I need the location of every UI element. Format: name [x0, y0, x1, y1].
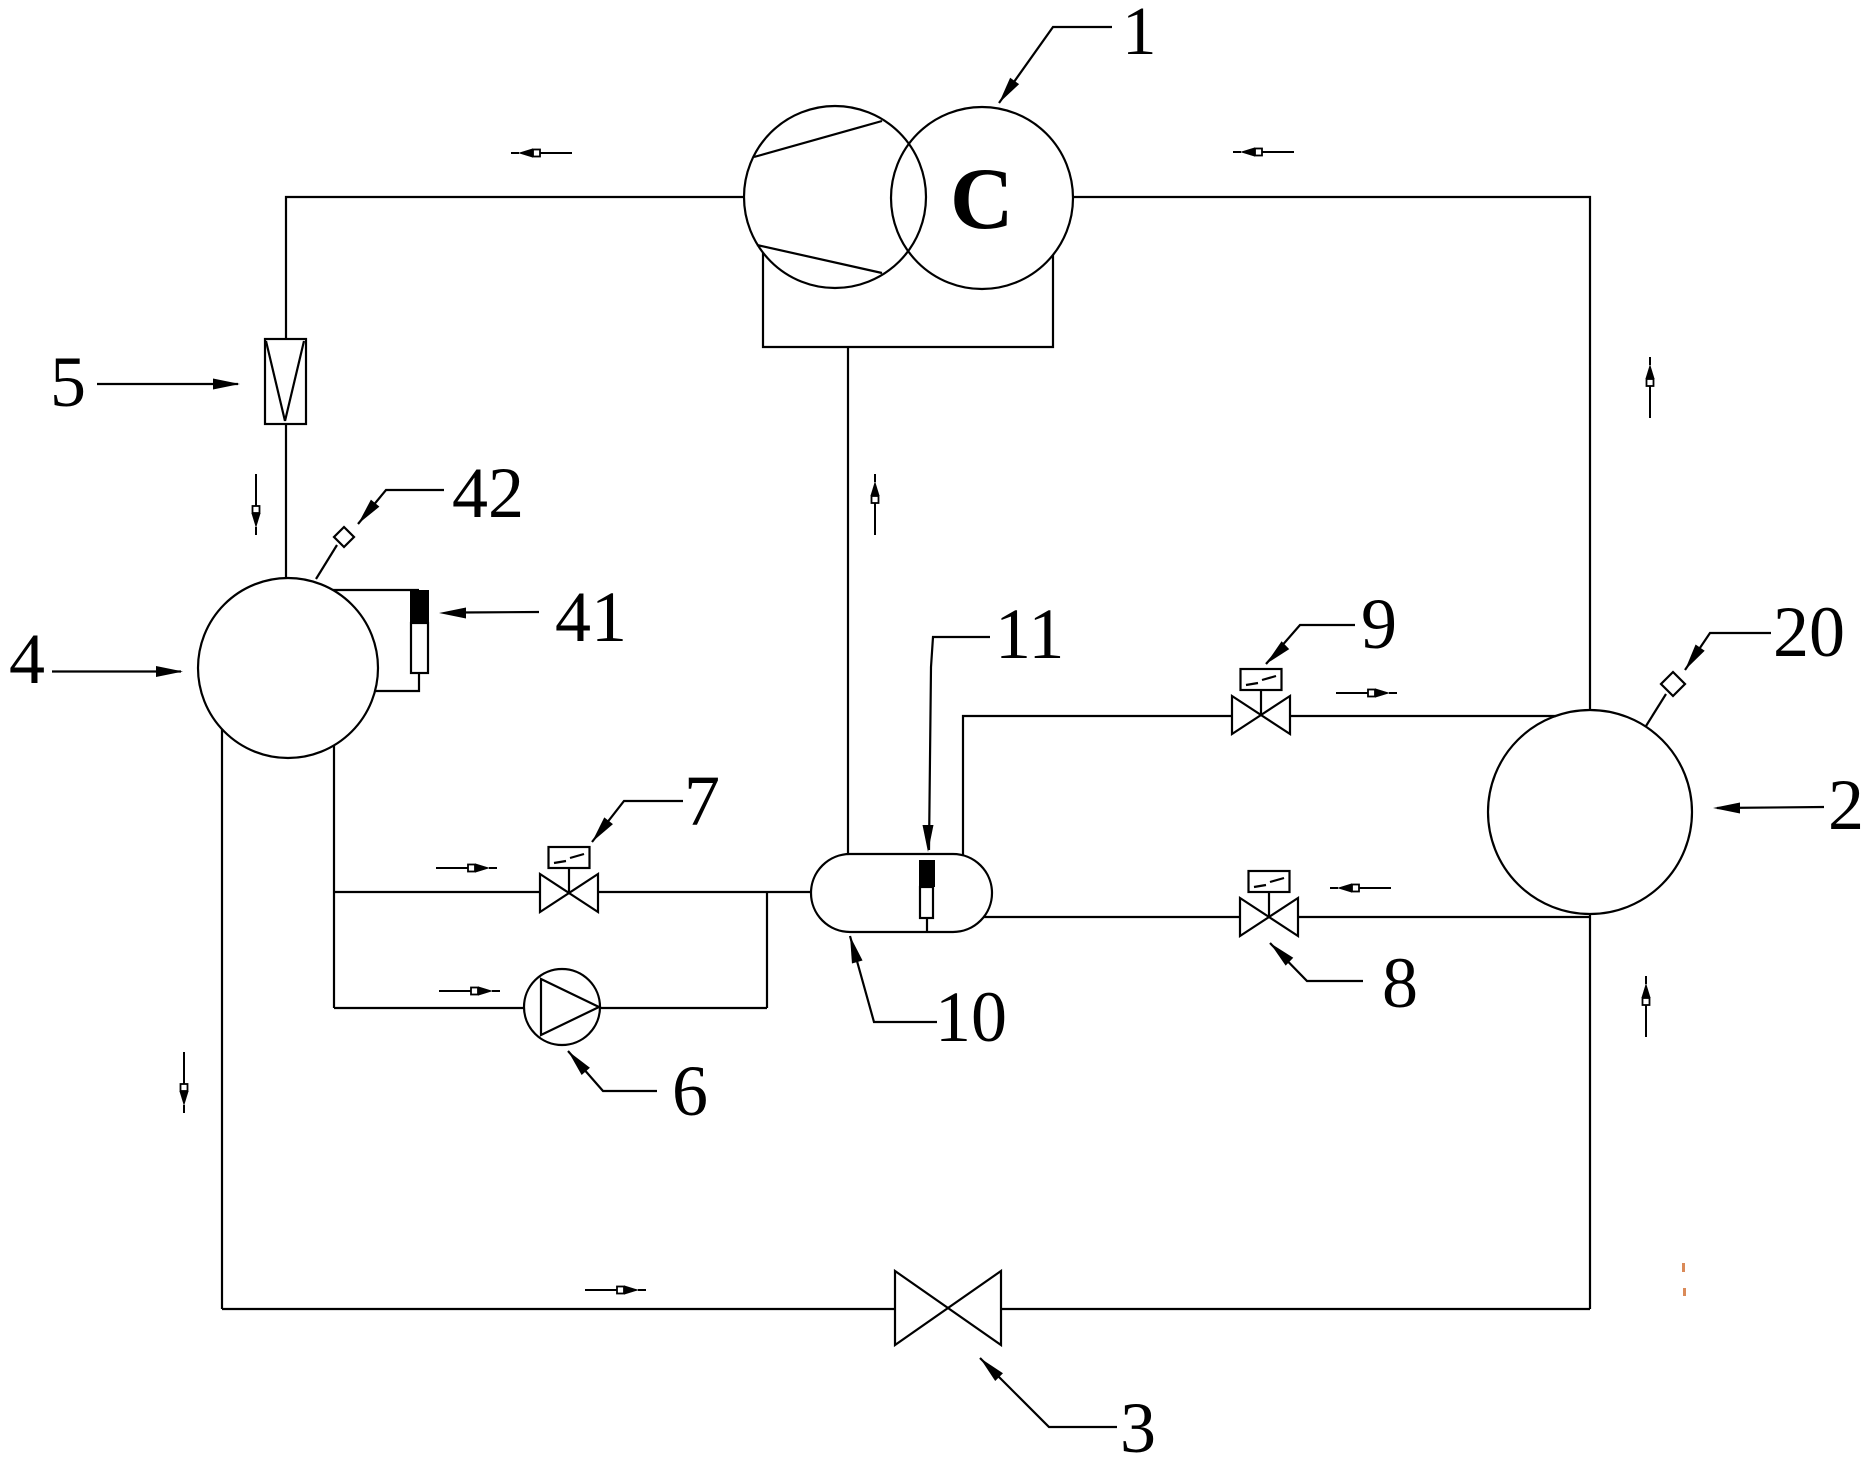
valve 7 body — [540, 847, 598, 912]
wire pump outlet — [600, 1007, 767, 1009]
svg-text:7: 7 — [684, 761, 720, 841]
compressor U1 wedge line upper — [754, 121, 882, 157]
svg-text:8: 8 — [1382, 943, 1418, 1023]
wire valve8 to right riser — [1298, 916, 1589, 918]
wire top-left pipe — [286, 197, 744, 339]
leader for label 4 — [52, 670, 181, 672]
flow arrow top-left — [511, 148, 572, 157]
svg-text:6: 6 — [672, 1051, 708, 1131]
compressor U1 motor circle — [891, 107, 1073, 289]
svg-text:41: 41 — [555, 577, 627, 657]
wire tank4 right drop — [333, 745, 335, 1008]
svg-text:5: 5 — [50, 342, 86, 422]
flow arrow valve7 line right — [436, 863, 497, 872]
wire bottom pipe left — [222, 1308, 895, 1310]
stray orange mark upper — [1682, 1263, 1685, 1272]
svg-text:4: 4 — [9, 619, 45, 699]
svg-text:3: 3 — [1120, 1388, 1156, 1461]
leader for label 42 — [358, 490, 444, 524]
wire bottom pipe right — [1001, 1308, 1590, 1310]
leader for label 1 — [999, 27, 1112, 103]
leader for label 11 — [929, 637, 990, 850]
flow arrow right riser up — [1645, 357, 1654, 418]
svg-text:10: 10 — [935, 977, 1007, 1057]
wire vessel10 to valve8 — [984, 916, 1240, 918]
filter 5 cone left — [266, 341, 285, 421]
sensor 20 diamond — [1661, 672, 1685, 696]
flow arrow left drop down — [179, 1052, 188, 1113]
svg-text:1: 1 — [1122, 0, 1157, 69]
compressor U1 base rectangle — [763, 253, 1053, 347]
wire compressor discharge down pipe — [847, 347, 849, 855]
wire pump riser junction — [766, 892, 768, 1008]
wire tank4 left drop — [221, 729, 223, 1309]
flow arrow valve8 line left — [1330, 883, 1391, 892]
leader for label 5 — [97, 383, 238, 385]
leader for label 3 — [980, 1358, 1117, 1427]
wire valve7 to vessel10 — [598, 891, 811, 893]
flow arrow below evaporator up — [1641, 976, 1650, 1037]
wire pump branch — [334, 1007, 524, 1009]
filter 5 cone right — [285, 341, 304, 421]
compressor U1 wedge line lower — [757, 245, 882, 273]
svg-text:11: 11 — [995, 594, 1064, 674]
compressor U1 fan circle — [744, 106, 926, 288]
svg-text:42: 42 — [452, 453, 524, 533]
flow arrow left vertical down — [251, 474, 260, 535]
svg-text:9: 9 — [1361, 584, 1397, 664]
stray orange mark lower — [1683, 1288, 1686, 1296]
leader for label 8 — [1270, 943, 1363, 981]
sensor 41 body — [411, 623, 428, 673]
wire vessel10 riser to valve9 line — [963, 716, 1232, 855]
wire branch to valve7 — [334, 891, 540, 893]
wire evaporator2 bottom drop — [1589, 914, 1591, 1309]
sensor 11 body — [920, 887, 933, 918]
flow arrow top-right — [1233, 147, 1294, 156]
leader for label 10 — [850, 936, 937, 1022]
tank 4 circle — [198, 578, 378, 758]
pump 6 triangle — [541, 979, 599, 1035]
leader for label 41 — [460, 611, 539, 614]
sensor 11 bottom wire — [926, 918, 928, 932]
sensor 42 stem — [316, 545, 337, 579]
leader for label 6 — [568, 1051, 657, 1091]
svg-text:C: C — [950, 151, 1014, 248]
sensor 20 stem — [1646, 694, 1666, 726]
leader for label 7 — [592, 801, 683, 842]
leader for label 9 — [1266, 625, 1355, 664]
flow arrow bottom pipe right — [585, 1285, 646, 1294]
valve 3 body — [895, 1271, 1001, 1345]
leader for label 2 — [1717, 807, 1824, 808]
pump 6 circle — [524, 969, 600, 1045]
leader for label 20 — [1685, 633, 1771, 670]
sensor 42 diamond — [334, 527, 354, 547]
svg-text:20: 20 — [1773, 592, 1845, 672]
filter 5 body — [265, 339, 306, 424]
sensor 41 top wire — [333, 589, 419, 591]
wire valve9 to evaporator2 — [1290, 715, 1556, 717]
flow arrow discharge up — [870, 474, 879, 535]
wire left vertical filter-to-tank — [285, 424, 287, 578]
valve 8 body — [1240, 871, 1298, 936]
evaporator 2 circle — [1488, 710, 1692, 914]
wire top-right pipe — [1073, 197, 1590, 710]
sensor 41 bottom wire — [375, 673, 419, 691]
sensor 41 black head — [410, 590, 429, 623]
sensor 11 black head — [919, 860, 935, 887]
flow arrow pump line right — [439, 986, 500, 995]
svg-text:2: 2 — [1828, 765, 1864, 845]
valve 9 body — [1232, 669, 1290, 734]
vessel 10 stadium body — [811, 854, 992, 932]
flow arrow valve9 line right — [1336, 688, 1397, 697]
